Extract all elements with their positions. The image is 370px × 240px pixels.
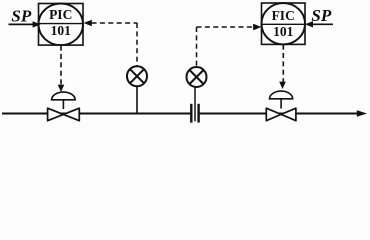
signal wire: FIC101 to valve V2 (dashed, arrow down) [279, 45, 286, 89]
signal wire: flow measurement to FIC101 (dashed) [197, 24, 262, 67]
signal wire: pressure measurement to PIC101 (dashed) [84, 20, 137, 66]
control valve V1 stem [62, 100, 64, 109]
svg-text:101: 101 [273, 24, 294, 39]
control valve V1 body [48, 108, 80, 121]
flow sensor FT (circle-X) [187, 67, 207, 87]
svg-text:FIC: FIC [272, 8, 295, 23]
impulse line pipe to pressure sensor [136, 86, 138, 113]
orifice plate FE [191, 104, 198, 123]
setpoint arrow into FIC101 [305, 21, 333, 27]
svg-text:SP: SP [311, 6, 331, 25]
controller PIC101 [39, 4, 84, 46]
svg-text:PIC: PIC [49, 7, 72, 22]
pressure sensor PT (circle-X) [127, 66, 147, 86]
svg-text:SP: SP [11, 7, 31, 26]
signal wire: PIC101 to valve V1 (dashed, arrow down) [58, 46, 65, 92]
control valve V2 body [266, 108, 296, 121]
impulse line orifice to flow sensor [194, 87, 196, 121]
setpoint arrow into PIC101 [9, 21, 41, 27]
control valve V2 stem [280, 99, 282, 109]
svg-text:101: 101 [51, 23, 72, 38]
controller FIC101 [262, 3, 306, 44]
pipe flow arrowhead [357, 110, 367, 116]
control valve V2 actuator diaphragm [270, 91, 293, 99]
process pipe [2, 113, 358, 115]
control valve V1 actuator diaphragm [52, 92, 76, 100]
